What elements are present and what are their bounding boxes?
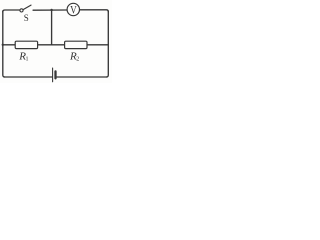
wire middle left segment	[3, 44, 15, 46]
wire bottom left segment	[4, 76, 52, 78]
wire bottom right segment	[57, 76, 107, 78]
svg-text:1: 1	[26, 56, 29, 62]
wire top middle segment	[33, 9, 67, 11]
wire middle center segment	[38, 44, 65, 46]
wire center vertical	[51, 10, 53, 45]
wire left vertical	[3, 11, 5, 77]
resistor R2	[65, 41, 87, 48]
battery B1	[53, 68, 56, 82]
wire top-right segment	[80, 10, 109, 12]
voltmeter V	[67, 3, 79, 15]
node top junction	[50, 9, 52, 11]
wire right vertical	[106, 11, 108, 77]
svg-text:V: V	[70, 5, 77, 17]
svg-text:S: S	[24, 13, 29, 23]
wire top-left segment	[3, 10, 20, 12]
node left junction	[2, 44, 4, 46]
wire middle right segment	[87, 44, 108, 46]
resistor R1	[15, 41, 37, 48]
svg-text:2: 2	[76, 56, 79, 62]
switch S	[20, 5, 31, 12]
